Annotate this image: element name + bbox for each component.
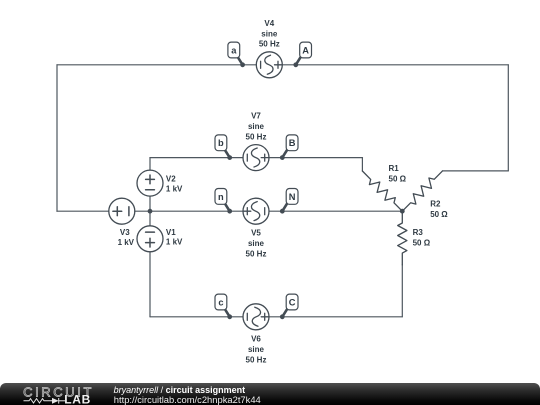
CircuitLab logo bbox=[14, 383, 110, 405]
wire V3 left bbox=[57, 210, 109, 212]
svg-text:V3: V3 bbox=[120, 228, 130, 237]
label V5 value bbox=[246, 229, 267, 259]
svg-text:c: c bbox=[218, 297, 223, 307]
node tag n bbox=[215, 189, 232, 214]
wire V2 top stub bbox=[149, 158, 151, 171]
voltage source V7 bbox=[243, 145, 269, 171]
voltage source V2 bbox=[137, 170, 163, 196]
svg-text:50 Hz: 50 Hz bbox=[246, 355, 267, 364]
voltage source V5 bbox=[243, 198, 269, 224]
label V7 value bbox=[246, 112, 267, 142]
svg-text:C: C bbox=[289, 297, 296, 307]
svg-text:R2: R2 bbox=[430, 200, 441, 209]
svg-text:50 Ω: 50 Ω bbox=[413, 239, 431, 248]
node tag a bbox=[228, 42, 245, 67]
footer line 1 bbox=[114, 385, 246, 395]
wire N rail left of V5 bbox=[150, 210, 243, 212]
label R1 value bbox=[389, 164, 407, 183]
wire R1 stub bbox=[361, 158, 363, 171]
wire bottom rail right of V6 bbox=[269, 316, 402, 318]
node tag N bbox=[280, 189, 298, 214]
label V2 value bbox=[166, 175, 183, 194]
node tag b bbox=[215, 135, 232, 160]
svg-text:sine: sine bbox=[261, 29, 278, 38]
svg-text:sine: sine bbox=[248, 122, 265, 131]
svg-text:50 Ω: 50 Ω bbox=[389, 175, 407, 184]
svg-text:V2: V2 bbox=[166, 175, 176, 184]
voltage source V1 bbox=[137, 226, 163, 252]
svg-text:N: N bbox=[289, 192, 296, 202]
svg-text:b: b bbox=[218, 138, 224, 148]
label V1 value bbox=[166, 228, 183, 247]
svg-text:V5: V5 bbox=[251, 229, 261, 238]
svg-text:1 kV: 1 kV bbox=[166, 184, 183, 193]
wire left vertical bbox=[56, 65, 58, 211]
wire top rail right of V4 bbox=[282, 64, 508, 66]
wire B rail left of V7 bbox=[150, 157, 243, 159]
wire B rail right of V7 bbox=[269, 157, 362, 159]
svg-text:LAB: LAB bbox=[64, 392, 91, 405]
footer bar bbox=[0, 383, 540, 405]
wire right vertical bbox=[507, 65, 509, 171]
footer line 2 bbox=[114, 394, 261, 405]
wire top rail left of V4 bbox=[57, 64, 256, 66]
svg-text:sine: sine bbox=[248, 239, 265, 248]
svg-text:1 kV: 1 kV bbox=[166, 238, 183, 247]
voltage source V6 bbox=[243, 304, 269, 330]
junction dot node at V sources bbox=[148, 209, 153, 214]
voltage source V3 bbox=[109, 198, 135, 224]
wire junction to V1 bbox=[149, 211, 151, 226]
svg-text:R3: R3 bbox=[413, 228, 424, 237]
wire R3 bottom bbox=[401, 265, 403, 317]
svg-text:a: a bbox=[231, 45, 237, 55]
svg-text:n: n bbox=[218, 192, 224, 202]
label R2 value bbox=[430, 200, 448, 219]
label V4 value bbox=[259, 19, 280, 49]
resistor R2 bbox=[402, 171, 442, 211]
svg-text:V7: V7 bbox=[251, 112, 261, 121]
svg-text:sine: sine bbox=[248, 345, 265, 354]
node tag B bbox=[280, 135, 298, 160]
svg-text:V4: V4 bbox=[264, 19, 274, 28]
svg-text:V6: V6 bbox=[251, 334, 261, 343]
node tag C bbox=[280, 294, 298, 319]
svg-text:50 Ω: 50 Ω bbox=[430, 210, 448, 219]
svg-text:B: B bbox=[289, 138, 296, 148]
label R3 value bbox=[413, 228, 431, 247]
resistor R1 bbox=[362, 171, 402, 211]
wire V2 bottom to junction bbox=[149, 196, 151, 211]
svg-text:1 kV: 1 kV bbox=[118, 238, 135, 247]
label V3 value bbox=[118, 228, 135, 247]
wire V1 bottom vertical bbox=[149, 252, 151, 317]
node tag c bbox=[215, 294, 232, 319]
label V6 value bbox=[246, 334, 267, 364]
wire N rail right of V5 bbox=[269, 210, 402, 212]
resistor R3 bbox=[398, 211, 407, 265]
svg-text:V1: V1 bbox=[166, 228, 176, 237]
voltage source V4 bbox=[256, 52, 282, 78]
svg-text:A: A bbox=[302, 45, 309, 55]
wire V3 to junction bbox=[135, 210, 150, 212]
junction dot node at resistors bbox=[400, 209, 405, 214]
node tag A bbox=[293, 42, 311, 67]
svg-text:50 Hz: 50 Hz bbox=[246, 250, 267, 259]
svg-text:50 Hz: 50 Hz bbox=[259, 40, 280, 49]
svg-text:R1: R1 bbox=[389, 164, 400, 173]
svg-text:50 Hz: 50 Hz bbox=[246, 133, 267, 142]
wire bottom rail left of V6 bbox=[150, 316, 243, 318]
wire R2 stub bbox=[443, 170, 509, 172]
